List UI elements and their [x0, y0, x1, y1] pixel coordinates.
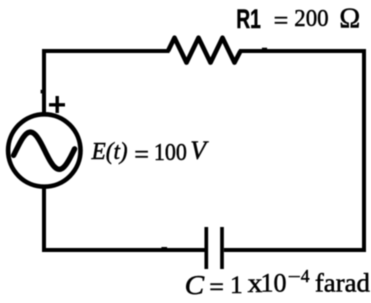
svg-text:E(t): E(t)	[91, 139, 128, 165]
svg-text:=: =	[209, 272, 224, 301]
artifact tick on bottom wire	[161, 247, 167, 249]
AC source sine wave	[14, 132, 75, 169]
svg-text:10: 10	[261, 269, 287, 298]
artifact tick on left wire	[41, 90, 43, 94]
resistor R1 zigzag	[168, 38, 241, 63]
AC source U1 circle	[8, 114, 80, 186]
svg-text:C: C	[185, 270, 206, 300]
wire bottom-left horizontal + left vertical lower	[44, 189, 205, 251]
svg-text:100: 100	[154, 139, 187, 166]
svg-text:farad: farad	[315, 268, 370, 297]
capacitor C right plate	[220, 227, 224, 269]
svg-text:4: 4	[301, 266, 310, 286]
svg-text:R1: R1	[236, 4, 261, 34]
artifact tick on top wire	[262, 48, 267, 50]
capacitor C left plate	[204, 227, 208, 269]
svg-text:200: 200	[294, 5, 328, 32]
svg-text:=: =	[274, 6, 289, 35]
plus polarity mark	[49, 96, 65, 113]
wire top-left horizontal + left vertical upper	[44, 51, 170, 113]
svg-text:=: =	[134, 140, 149, 169]
svg-text:Ω: Ω	[339, 4, 360, 35]
svg-text:−: −	[288, 266, 301, 286]
wire top-right horizontal + right vertical + bottom-right horizontal	[224, 51, 364, 250]
svg-text:1: 1	[230, 270, 243, 299]
